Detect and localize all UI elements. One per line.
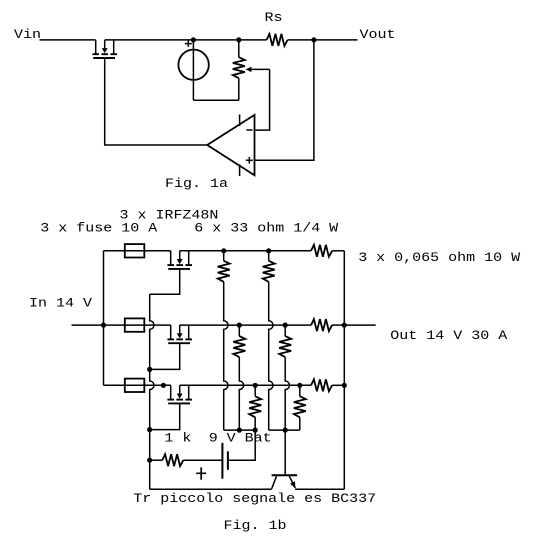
- polarity plus label of current source I1: [185, 40, 192, 47]
- wire bottom rail left to collector: [150, 488, 272, 490]
- wire B1 column with hops: [269, 282, 273, 430]
- svg-text:6 x 33 ohm 1/4 W: 6 x 33 ohm 1/4 W: [194, 222, 339, 237]
- wire Q4 gate tie: [150, 403, 180, 429]
- svg-text:Fig. 1a: Fig. 1a: [165, 177, 228, 192]
- resistor 33 ohm A1: [218, 251, 230, 282]
- resistor 33 ohm B1: [263, 251, 275, 282]
- node 33ohm A1 top junction: [221, 248, 226, 253]
- battery BT1 9V negative plate: [227, 451, 229, 470]
- transistor Q4 IRFZ48N row3: [167, 385, 192, 403]
- node right bus row3 junction: [342, 383, 347, 388]
- wire row1 to right bus: [332, 250, 344, 252]
- wire row2 fuse branch: [104, 324, 171, 326]
- potentiometer P1 body: [233, 57, 245, 78]
- fuse F2: [125, 318, 145, 331]
- op-amp U1 inverting input label: [246, 129, 252, 131]
- node gate chain row2 junction: [147, 367, 152, 372]
- wire In input: [72, 324, 104, 326]
- wire B2 column with hop: [285, 357, 289, 430]
- svg-text:9 V Bat: 9 V Bat: [209, 431, 272, 446]
- wire Q2 gate tie: [150, 269, 180, 294]
- resistor 33 ohm B3: [294, 385, 306, 417]
- svg-text:3 x 0,065 ohm 10 W: 3 x 0,065 ohm 10 W: [358, 251, 521, 266]
- resistor 33 ohm A2: [233, 325, 245, 357]
- node B junction potentiometer top: [236, 37, 241, 42]
- wire gate chain with hops: [150, 294, 154, 489]
- wire wiper to op-amp inverting input: [255, 69, 269, 130]
- transistor Q5 collector: [272, 476, 277, 489]
- battery BT1 9V positive plate: [221, 443, 223, 479]
- wire row1 to sense resistor: [180, 250, 311, 252]
- wire feedback node C to op-amp non-inverting input: [255, 40, 314, 160]
- transistor Q5 emitter with arrow: [289, 476, 295, 489]
- op-amp U1 positive supply pin: [239, 115, 241, 127]
- wire row3 to sense resistor: [180, 384, 311, 386]
- node right bus base junction: [283, 428, 288, 433]
- wire right sense bus: [269, 429, 300, 431]
- current source I1 circle: [178, 50, 208, 80]
- wire A1 column with hops: [224, 282, 228, 430]
- node In junction on fuse bus: [101, 323, 106, 328]
- potentiometer P1 top lead: [238, 40, 240, 57]
- resistor 0,065 ohm row1: [311, 245, 332, 257]
- resistor R 1k: [162, 454, 183, 466]
- node 33ohm B1 top junction: [266, 248, 271, 253]
- fuse F1: [125, 244, 145, 257]
- transistor Q5 BC337 base bar: [272, 474, 298, 476]
- wire bottom rail emitter to right bus: [295, 488, 344, 490]
- svg-text:Vout: Vout: [360, 28, 396, 43]
- svg-text:1 k: 1 k: [164, 431, 191, 446]
- potentiometer P1 wiper arrow: [246, 67, 270, 72]
- wire row3 fuse branch: [104, 384, 171, 386]
- wire Q3 gate tie: [150, 343, 180, 369]
- wire 1k to battery: [183, 459, 221, 461]
- node 33ohm A2 top junction: [237, 323, 242, 328]
- node left bus A2 junction: [237, 428, 242, 433]
- node A junction current source: [191, 37, 196, 42]
- svg-text:Rs: Rs: [265, 11, 283, 26]
- node 33ohm B3 top junction: [297, 383, 302, 388]
- svg-text:Tr piccolo segnale es BC337: Tr piccolo segnale es BC337: [133, 492, 376, 507]
- wire B3 column: [299, 417, 301, 430]
- node left bus A3 junction: [253, 428, 258, 433]
- wire node C to Vout: [314, 39, 358, 41]
- op-amp U1 non-inverting input label: [246, 157, 253, 164]
- wire Out output: [344, 324, 375, 326]
- potentiometer P1 bottom lead: [238, 78, 240, 100]
- resistor 0,065 ohm row3: [311, 379, 332, 391]
- wire op-amp output to Q1 gate: [105, 58, 208, 145]
- wire node B to resistor Rs: [239, 39, 267, 41]
- svg-text:Vin: Vin: [14, 28, 41, 43]
- op-amp U1 negative supply pin: [239, 164, 241, 176]
- fuse F3: [125, 379, 145, 392]
- resistor 33 ohm B2: [279, 325, 291, 357]
- node row3 junction left: [161, 383, 166, 388]
- node Out junction: [342, 323, 347, 328]
- transistor Q3 IRFZ48N row2: [167, 325, 192, 343]
- transistor Q1 p-mosfet pass element: [92, 40, 117, 58]
- wire row3 to right bus: [332, 384, 344, 386]
- svg-text:3 x fuse 10 A: 3 x fuse 10 A: [40, 222, 158, 237]
- node 33ohm A3 top junction: [253, 383, 258, 388]
- op-amp U1 triangle: [207, 115, 254, 175]
- resistor 33 ohm A3: [249, 385, 261, 417]
- wire left fuse bus: [103, 251, 105, 385]
- wire A3 column to battery: [228, 417, 255, 460]
- wire Q1 source to current-source node: [105, 39, 194, 41]
- wire row2 to sense resistor: [180, 324, 311, 326]
- transistor Q2 IRFZ48N row1: [167, 251, 192, 269]
- node gate chain row3 junction: [147, 427, 152, 432]
- wire right output bus: [343, 251, 345, 489]
- svg-text:Out 14 V 30 A: Out 14 V 30 A: [390, 329, 508, 344]
- wire gate chain to 1k: [150, 459, 163, 461]
- svg-text:Fig. 1b: Fig. 1b: [224, 519, 287, 534]
- wire row2 to right bus: [332, 324, 344, 326]
- wire Vin to Q1 drain: [40, 39, 96, 41]
- node C junction output sense: [311, 37, 316, 42]
- wire battery negative to left sense bus: [228, 459, 255, 461]
- node 33ohm B2 top junction: [283, 323, 288, 328]
- wire Rs to node C: [288, 39, 314, 41]
- wire A2 column with hop: [239, 357, 243, 430]
- wire left sense bus: [224, 429, 256, 431]
- wire bottom loop I1 to pot: [193, 99, 238, 101]
- resistor 0,065 ohm row2: [311, 319, 332, 331]
- wire row1 fuse branch: [104, 250, 171, 252]
- wire base lead from right sense bus: [284, 430, 286, 474]
- battery BT1 plus label: [196, 467, 206, 479]
- wire node A to potentiometer: [193, 39, 238, 41]
- svg-text:In 14 V: In 14 V: [29, 297, 93, 312]
- node 1k junction on gate chain: [147, 458, 152, 463]
- resistor Rs: [267, 34, 288, 46]
- wire through current source I1: [192, 40, 194, 100]
